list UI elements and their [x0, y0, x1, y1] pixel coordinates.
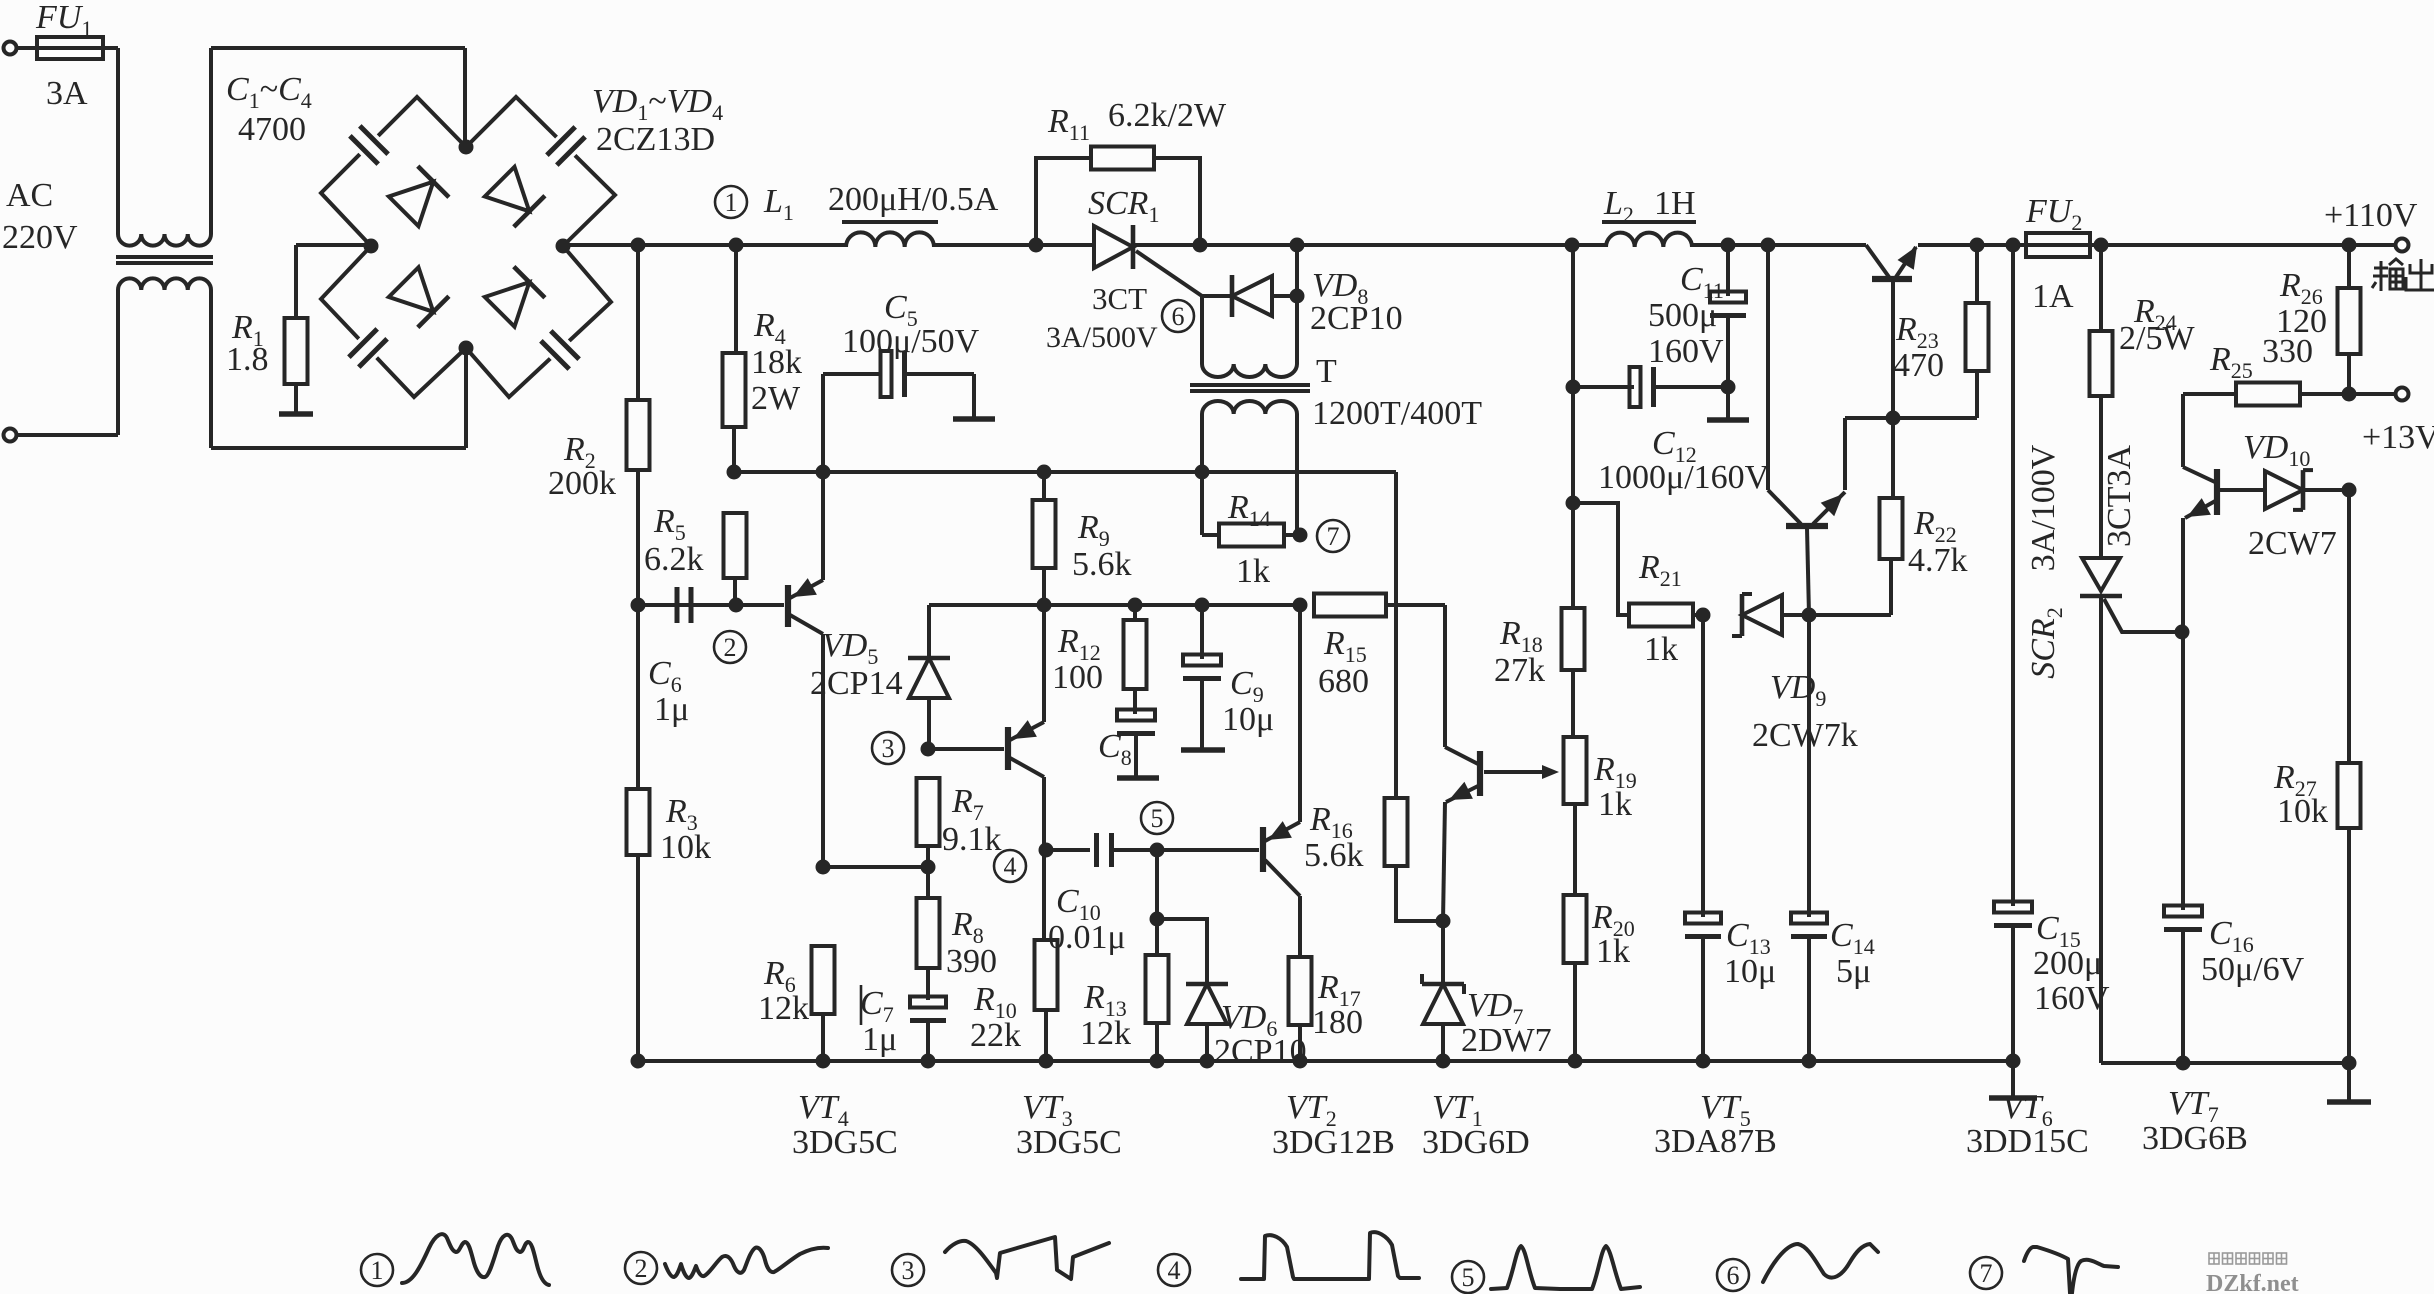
svg-text:+13V: +13V	[2362, 419, 2434, 456]
svg-text:6: 6	[1172, 302, 1185, 331]
waveform 4	[1158, 1254, 1190, 1286]
node C16 rail	[2176, 1056, 2191, 1071]
node R11 left	[1029, 238, 1044, 253]
node circled 7	[1317, 520, 1349, 552]
node R27 rail	[2342, 1056, 2357, 1071]
resistor R17	[1289, 957, 1312, 1025]
wire	[1809, 613, 1891, 617]
node circled 2	[714, 631, 746, 663]
svg-text:6: 6	[1727, 1261, 1740, 1290]
terminal +13V	[2349, 392, 2396, 396]
node C9 top	[1195, 598, 1210, 613]
node VT6 base	[1886, 411, 1901, 426]
transistor VT3	[1005, 727, 1011, 770]
svg-text:0.01μ: 0.01μ	[1048, 919, 1126, 956]
node VD9 left	[1696, 608, 1711, 623]
diode VD6	[1187, 984, 1227, 1024]
node R10 rail	[1039, 1054, 1054, 1069]
resistor R23	[1975, 245, 1979, 303]
node R9 bottom	[1037, 598, 1052, 613]
svg-text:3A/500V: 3A/500V	[1046, 321, 1158, 354]
resistor R21	[1573, 503, 1629, 615]
wire VD5 top	[929, 603, 1300, 607]
node C12 branch	[1566, 380, 1581, 395]
node R3 rail	[631, 1054, 646, 1069]
svg-text:VD1~VD4: VD1~VD4	[592, 83, 723, 125]
inductor L1	[846, 232, 934, 247]
node bridge bottom	[459, 341, 474, 356]
ground C11	[1707, 417, 1749, 422]
svg-text:3DD15C: 3DD15C	[1966, 1123, 2089, 1160]
wire	[1157, 919, 1207, 983]
resistor R22	[1891, 418, 1895, 498]
wire	[116, 290, 120, 435]
svg-text:7: 7	[1980, 1259, 1993, 1288]
svg-text:2CP10: 2CP10	[1310, 300, 1403, 337]
svg-text:120: 120	[2276, 303, 2327, 340]
waveform 6	[1717, 1259, 1749, 1291]
node circled 4	[994, 850, 1026, 882]
node C5 tap	[816, 465, 831, 480]
ground C5	[953, 416, 995, 421]
svg-text:100μ/50V: 100μ/50V	[842, 323, 980, 360]
transistor VT2	[1260, 827, 1266, 872]
svg-text:2CW7: 2CW7	[2248, 525, 2337, 562]
capacitor C16	[2164, 906, 2202, 917]
node bus VD8	[1290, 238, 1305, 253]
resistor R7	[917, 778, 940, 846]
transistor VT1	[1477, 751, 1483, 796]
resistor R15	[1314, 594, 1386, 617]
node circled 6	[1162, 300, 1194, 332]
capacitor C5	[821, 374, 825, 472]
wire	[16, 433, 118, 437]
transistor VT4	[785, 585, 791, 627]
diode VD3	[389, 267, 434, 312]
svg-text:1.8: 1.8	[226, 341, 269, 378]
svg-text:7: 7	[1327, 522, 1340, 551]
node bus C15	[2006, 238, 2021, 253]
capacitor C12	[1573, 385, 1634, 389]
wire	[1918, 243, 2396, 247]
svg-text:10k: 10k	[660, 829, 711, 866]
resistor R25	[2183, 392, 2236, 396]
wire main bus	[296, 243, 371, 247]
svg-text:4700: 4700	[238, 111, 306, 148]
wire	[16, 46, 37, 50]
svg-text:680: 680	[1318, 663, 1369, 700]
inductor L2	[1606, 233, 1692, 247]
ground rail right	[2347, 1063, 2351, 1100]
node bus R26	[2342, 238, 2357, 253]
svg-text:5: 5	[1151, 804, 1164, 833]
svg-text:3: 3	[902, 1256, 915, 1285]
node R13 top	[1150, 912, 1165, 927]
svg-text:200k: 200k	[548, 465, 616, 502]
node C15 rail	[2006, 1054, 2021, 1069]
ground C9	[1181, 747, 1225, 752]
svg-text:27k: 27k	[1494, 652, 1545, 689]
node C6 left	[631, 598, 646, 613]
svg-text:22k: 22k	[970, 1017, 1021, 1054]
bridge arm top-left outline	[321, 97, 466, 246]
node R11 right	[1193, 238, 1208, 253]
svg-text:3A: 3A	[46, 75, 88, 112]
node R4 bottom	[727, 465, 742, 480]
wire	[209, 48, 213, 234]
diode VD4	[485, 282, 530, 327]
svg-text:6.2k: 6.2k	[644, 541, 704, 578]
svg-text:180: 180	[1312, 1004, 1363, 1041]
transistor VT7	[2214, 469, 2220, 515]
node bridge top	[459, 140, 474, 155]
svg-text:50μ/6V: 50μ/6V	[2201, 951, 2305, 988]
ground rail left	[2011, 1061, 2015, 1096]
svg-text:3DG12B: 3DG12B	[1272, 1124, 1395, 1161]
wire	[209, 290, 213, 448]
wire	[463, 48, 467, 147]
svg-text:4.7k: 4.7k	[1908, 542, 1968, 579]
transformer T secondary	[1202, 401, 1297, 414]
node VD8 anode	[1290, 289, 1305, 304]
resistor R27	[2347, 490, 2351, 763]
svg-text:1000μ/160V: 1000μ/160V	[1598, 459, 1770, 496]
bridge arm bottom-left outline	[321, 246, 466, 397]
svg-text:3DG6D: 3DG6D	[1422, 1124, 1530, 1161]
wire second bus	[734, 470, 1396, 474]
svg-text:1μ: 1μ	[654, 691, 689, 728]
capacitor C14	[1807, 615, 1811, 917]
node R2 tap	[631, 238, 646, 253]
node bus R23	[1970, 238, 1985, 253]
ground C8	[1117, 775, 1159, 780]
wire VT7 emitter column	[2181, 632, 2185, 910]
svg-text:12k: 12k	[758, 990, 809, 1027]
node R12 top	[1128, 598, 1143, 613]
svg-text:1A: 1A	[2032, 278, 2074, 315]
svg-text:3DA87B: 3DA87B	[1654, 1123, 1777, 1160]
node VD10 right	[2342, 483, 2357, 498]
node R6 rail	[816, 1054, 831, 1069]
wire	[116, 48, 120, 234]
resistor R26	[2347, 245, 2351, 288]
svg-text:1k: 1k	[1644, 631, 1678, 668]
waveform 3	[892, 1254, 924, 1286]
svg-text:500μ: 500μ	[1648, 297, 1717, 334]
wire R16 column	[1394, 472, 1398, 798]
node VD7 rail	[1436, 1054, 1451, 1069]
capacitor C13	[1701, 615, 1705, 917]
node VT1 emitter R16	[1436, 914, 1451, 929]
svg-text:5.6k: 5.6k	[1072, 546, 1132, 583]
node bridge center	[556, 239, 571, 254]
svg-text:2CP10: 2CP10	[1214, 1033, 1307, 1070]
svg-text:3DG6B: 3DG6B	[2142, 1120, 2248, 1157]
label shuchu output	[2372, 259, 2403, 291]
node R15 left	[1293, 598, 1308, 613]
svg-text:2: 2	[724, 633, 737, 662]
transformer T core	[1190, 383, 1310, 387]
node 7 column top	[1293, 528, 1308, 543]
node 5 dot	[1150, 843, 1165, 858]
node C12 right	[1721, 380, 1736, 395]
waveform 1	[361, 1254, 393, 1286]
thyristor SCR2	[2082, 558, 2120, 591]
resistor R13	[1155, 919, 1159, 955]
svg-text:160V: 160V	[1648, 333, 1724, 370]
node circled 3	[872, 732, 904, 764]
resistor R8	[917, 898, 940, 968]
svg-text:1k: 1k	[1236, 553, 1270, 590]
svg-text:5: 5	[1462, 1263, 1475, 1292]
filter choke secondary winding	[118, 278, 211, 290]
svg-text:2CW7k: 2CW7k	[1752, 717, 1858, 754]
capacitor C9	[1200, 605, 1204, 659]
diode VD8	[1202, 294, 1233, 298]
node R13 rail	[1150, 1054, 1165, 1069]
svg-text:2CP14: 2CP14	[810, 665, 903, 702]
svg-text:5μ: 5μ	[1836, 953, 1871, 990]
svg-text:220V: 220V	[2, 219, 78, 256]
node C7 rail	[921, 1054, 936, 1069]
filter choke primary winding	[118, 234, 211, 246]
svg-text:3DG5C: 3DG5C	[792, 1124, 898, 1161]
waveform 5	[1452, 1261, 1484, 1293]
wire	[1692, 243, 1866, 247]
resistor R20	[1564, 895, 1587, 963]
bridge arm bottom-right outline	[466, 246, 611, 397]
wire node2 line	[638, 603, 784, 607]
diode VD1	[389, 182, 434, 227]
wire	[1046, 848, 1090, 852]
terminal input bottom	[4, 429, 17, 442]
diode VD7 zener	[1441, 921, 1445, 983]
resistor R10	[1035, 940, 1058, 1010]
svg-text:390: 390	[946, 943, 997, 980]
fuse FU2	[2026, 233, 2090, 257]
resistor R11	[1036, 158, 1091, 245]
waveform 7	[1970, 1257, 2002, 1289]
wire	[1133, 243, 1606, 247]
thyristor SCR1	[1094, 226, 1133, 268]
wire	[1295, 245, 1299, 364]
svg-text:+110V: +110V	[2324, 197, 2418, 234]
resistor R1	[294, 245, 298, 318]
node R7 R8	[921, 860, 936, 875]
node 4 dot	[1039, 843, 1054, 858]
svg-text:AC: AC	[6, 177, 53, 214]
transistor VT6 pass	[1866, 245, 1889, 277]
svg-text:1: 1	[725, 188, 738, 217]
svg-text:C1~C4: C1~C4	[226, 71, 312, 113]
node C13 rail	[1696, 1054, 1711, 1069]
capacitor C1	[373, 139, 375, 141]
svg-text:160V: 160V	[2034, 980, 2110, 1017]
wire bottom rail right	[2101, 1061, 2349, 1065]
wire	[1155, 850, 1159, 919]
svg-text:4: 4	[1168, 1256, 1181, 1285]
svg-text:200μH/0.5A: 200μH/0.5A	[828, 181, 999, 218]
node circled 1	[715, 186, 747, 218]
svg-text:3A/100V: 3A/100V	[2025, 444, 2062, 571]
resistor R2	[636, 245, 640, 400]
capacitor C6	[675, 587, 680, 623]
svg-text:3: 3	[882, 734, 895, 763]
svg-text:1k: 1k	[1596, 933, 1630, 970]
svg-text:10μ: 10μ	[1724, 953, 1776, 990]
svg-text:10μ: 10μ	[1222, 701, 1274, 738]
node 3 dot	[921, 742, 936, 757]
svg-text:3CT: 3CT	[1092, 281, 1147, 316]
capacitor C4	[564, 344, 566, 346]
wire	[211, 46, 465, 50]
node C14 rail	[1802, 1054, 1817, 1069]
svg-text:9.1k: 9.1k	[942, 821, 1002, 858]
svg-text:3CT3A: 3CT3A	[2101, 445, 2138, 547]
svg-text:200μ: 200μ	[2033, 945, 2102, 982]
node SCR2 gate	[2175, 625, 2190, 640]
node R20 rail	[1568, 1054, 1583, 1069]
node 1 dot	[729, 238, 744, 253]
resistor R5	[724, 513, 747, 578]
svg-text:2: 2	[635, 1254, 648, 1283]
svg-text:4: 4	[1004, 852, 1017, 881]
node +13V	[2342, 387, 2357, 402]
resistor R3	[636, 605, 640, 789]
capacitor C7	[910, 997, 946, 1008]
resistor R6	[812, 946, 835, 1014]
resistor R18	[1571, 245, 1575, 608]
wire	[928, 747, 1004, 751]
node VT4 collector R6	[816, 860, 831, 875]
node bridge left	[364, 239, 379, 254]
node R21 branch	[1566, 496, 1581, 511]
svg-text:6.2k/2W: 6.2k/2W	[1108, 97, 1227, 134]
node bus C11	[1721, 238, 1736, 253]
wire	[934, 243, 1094, 247]
svg-text:3DG5C: 3DG5C	[1016, 1124, 1122, 1161]
wire	[823, 865, 928, 869]
svg-text:12k: 12k	[1080, 1015, 1131, 1052]
svg-text:100: 100	[1052, 659, 1103, 696]
svg-text:1μ: 1μ	[862, 1021, 897, 1058]
svg-text:18k: 18k	[751, 344, 802, 381]
node circled 5	[1141, 802, 1173, 834]
transformer T primary	[1200, 296, 1204, 364]
svg-text:5.6k: 5.6k	[1304, 837, 1364, 874]
svg-text:DZkf.net: DZkf.net	[2206, 1271, 2299, 1294]
node bus R24	[2094, 238, 2109, 253]
transistor VT5	[1761, 238, 1776, 253]
wire	[464, 348, 468, 448]
svg-text:470: 470	[1893, 347, 1944, 384]
svg-text:1: 1	[371, 1256, 384, 1285]
choke core	[116, 255, 213, 259]
resistor R19 pot	[1564, 737, 1587, 804]
resistor R9	[1042, 472, 1046, 500]
svg-text:2W: 2W	[751, 380, 801, 417]
capacitor C3	[362, 342, 364, 344]
capacitor C15	[2011, 245, 2015, 906]
svg-text:2/5W: 2/5W	[2119, 320, 2195, 357]
node 2 dot	[729, 598, 744, 613]
svg-text:2DW7: 2DW7	[1461, 1022, 1552, 1059]
node VD9 right	[1802, 608, 1817, 623]
resistor R4	[734, 245, 738, 353]
diode VD10 zener	[2265, 471, 2303, 509]
svg-text:2CZ13D: 2CZ13D	[596, 121, 715, 158]
capacitor C10	[1094, 833, 1099, 867]
node bus R18	[1565, 238, 1580, 253]
diode VD9 zener	[1742, 595, 1782, 635]
resistor R12	[1133, 605, 1137, 620]
wire	[211, 446, 466, 450]
svg-text:1200T/400T: 1200T/400T	[1312, 395, 1482, 432]
diode VD2	[485, 167, 530, 212]
wire bottom rail left	[638, 1059, 2013, 1063]
bridge arm top-right outline	[466, 97, 615, 246]
svg-text:10k: 10k	[2277, 793, 2328, 830]
resistor R16	[1385, 798, 1408, 866]
resistor R24	[2099, 245, 2103, 331]
svg-text:1k: 1k	[1598, 786, 1632, 823]
waveform 2	[625, 1252, 657, 1284]
watermark	[2209, 1253, 2287, 1264]
ground R1	[279, 411, 313, 416]
node R17 rail	[1293, 1054, 1308, 1069]
resistor R14	[1200, 472, 1204, 535]
svg-text:1H: 1H	[1654, 185, 1696, 222]
terminal input top	[4, 42, 17, 55]
node VD6 rail	[1200, 1054, 1215, 1069]
node R9 top	[1037, 465, 1052, 480]
diode VD5	[927, 605, 931, 657]
terminal +110V	[2348, 244, 2350, 246]
node T sec left	[1195, 465, 1210, 480]
svg-text:T: T	[1316, 353, 1337, 390]
capacitor C2	[560, 140, 562, 142]
capacitor C11	[1726, 245, 1730, 296]
fuse FU1	[37, 46, 118, 50]
wire	[563, 243, 846, 247]
wire	[1112, 848, 1259, 852]
capacitor C8	[1117, 710, 1155, 721]
